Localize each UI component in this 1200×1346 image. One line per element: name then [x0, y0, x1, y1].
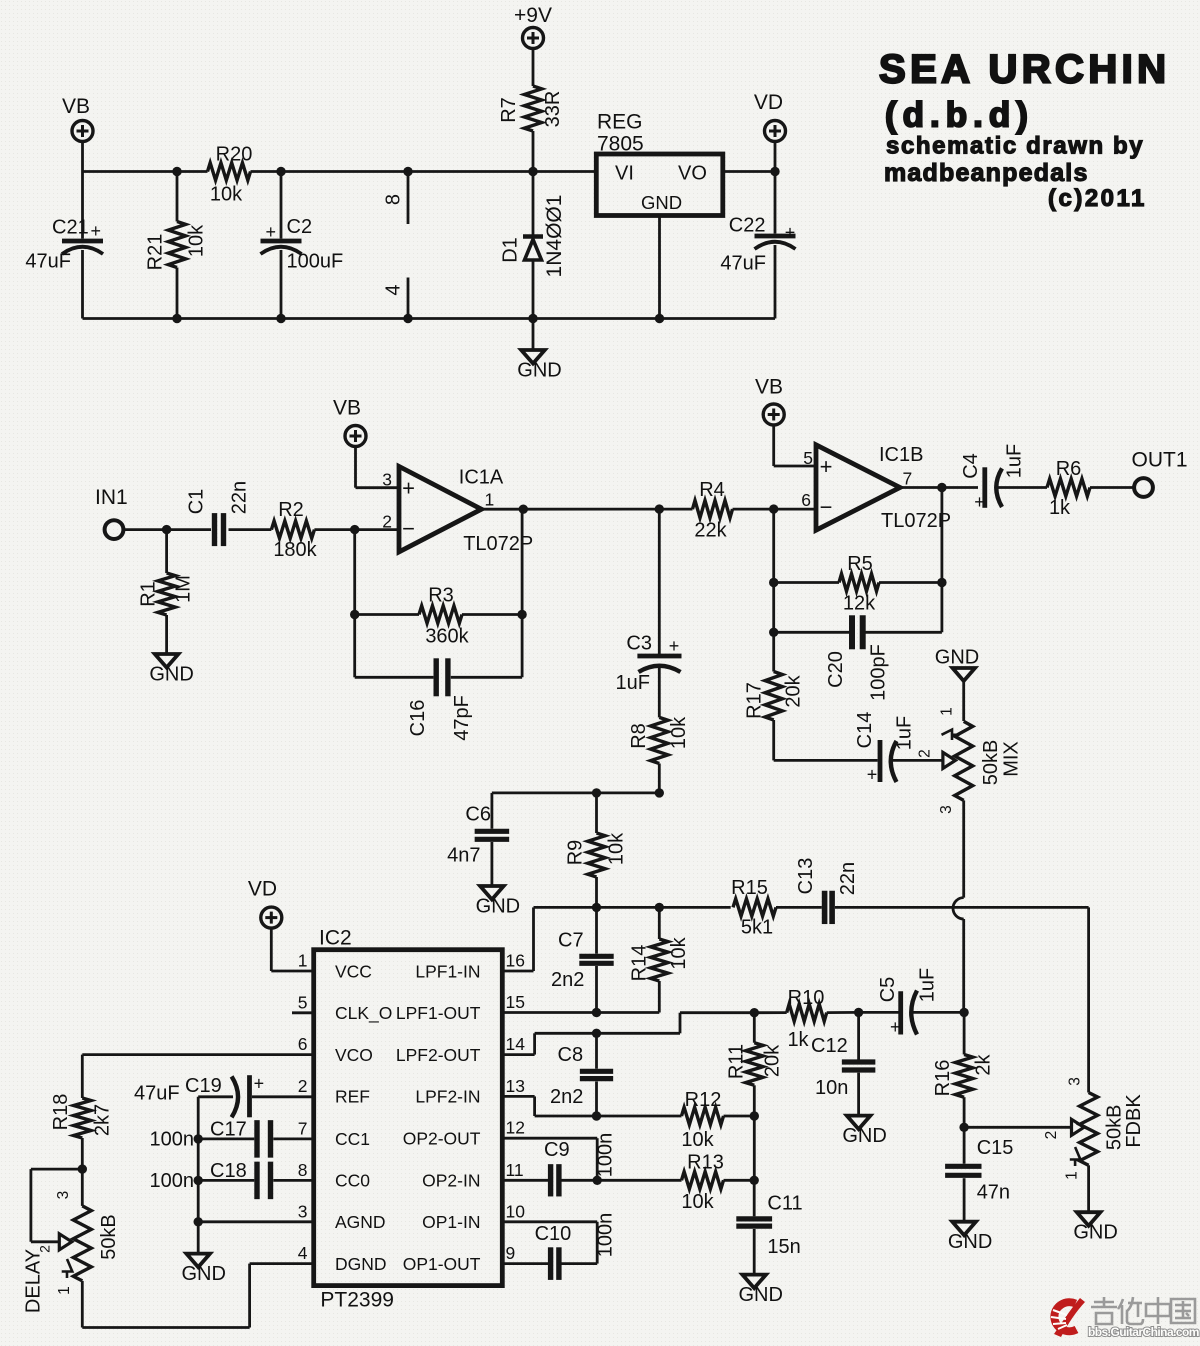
svg-text:50kB: 50kB: [980, 740, 1002, 786]
regulator REG 7805: [596, 111, 723, 216]
svg-text:22n: 22n: [229, 481, 251, 514]
capacitor C12: [811, 1012, 875, 1115]
svg-text:+: +: [785, 223, 796, 243]
svg-text:5: 5: [298, 992, 308, 1012]
svg-text:DELAY: DELAY: [23, 1249, 45, 1313]
junction R5 right: [937, 578, 946, 587]
capacitor C8: [550, 1033, 613, 1116]
svg-text:(d.b.d): (d.b.d): [885, 96, 1034, 135]
svg-text:OUT1: OUT1: [1132, 449, 1188, 472]
svg-text:2: 2: [382, 512, 392, 532]
svg-text:22k: 22k: [694, 520, 727, 542]
svg-text:AGND: AGND: [335, 1212, 386, 1232]
svg-text:C16: C16: [407, 700, 429, 737]
svg-text:R16: R16: [932, 1060, 954, 1097]
svg-text:VB: VB: [755, 376, 783, 399]
resistor R13: [681, 1152, 759, 1214]
svg-text:OP2-OUT: OP2-OUT: [403, 1129, 481, 1149]
svg-text:REG: REG: [597, 111, 643, 134]
capacitor C7: [551, 907, 614, 1012]
svg-text:GND: GND: [181, 1263, 225, 1285]
capacitor C19: [134, 1074, 314, 1118]
resistor R9: [565, 793, 628, 908]
svg-text:9: 9: [506, 1243, 516, 1263]
svg-text:50kB: 50kB: [98, 1214, 120, 1260]
svg-text:C2: C2: [287, 216, 313, 238]
resistor R18: [50, 1055, 114, 1170]
wire hop over feedback net: [953, 898, 964, 919]
wire R17 to C14: [774, 720, 878, 760]
wire DELAY wiper loop: [31, 1169, 82, 1250]
svg-text:1uF: 1uF: [917, 968, 939, 1002]
svg-text:PT2399: PT2399: [320, 1289, 394, 1312]
junction R11 top: [750, 1008, 759, 1017]
svg-text:10k: 10k: [606, 832, 628, 865]
svg-text:C22: C22: [729, 215, 766, 237]
svg-text:VCO: VCO: [335, 1045, 373, 1065]
resistor R3: [355, 585, 522, 648]
svg-text:VD: VD: [248, 878, 277, 901]
svg-text:100n: 100n: [595, 1213, 617, 1258]
svg-text:47uF: 47uF: [134, 1083, 180, 1105]
capacitor C18: [150, 1160, 314, 1199]
wire VCO row: [82, 1053, 313, 1056]
svg-text:20k: 20k: [783, 674, 805, 707]
wire top supply rail: [83, 170, 597, 173]
wire VD to pin1: [271, 928, 313, 971]
svg-text:20k: 20k: [762, 1044, 784, 1077]
svg-text:REF: REF: [335, 1087, 370, 1107]
svg-text:VO: VO: [678, 163, 707, 185]
svg-text:SEA URCHIN: SEA URCHIN: [879, 48, 1170, 92]
svg-text:8: 8: [298, 1160, 308, 1180]
wire IC1A out down: [521, 509, 524, 677]
svg-text:33R: 33R: [542, 91, 564, 128]
capacitor C9: [502, 1133, 681, 1197]
svg-text:3: 3: [298, 1201, 308, 1221]
wire IC1B out: [900, 483, 978, 492]
svg-text:7: 7: [298, 1118, 308, 1138]
svg-text:4n7: 4n7: [447, 845, 480, 867]
resistor R8: [628, 668, 690, 793]
wire pin16 riser: [502, 907, 533, 971]
svg-text:10k: 10k: [668, 716, 690, 749]
svg-text:GND: GND: [517, 360, 561, 382]
svg-text:VCC: VCC: [335, 961, 372, 981]
wire C17 C18 rail: [194, 1097, 203, 1254]
svg-text:2k7: 2k7: [91, 1104, 113, 1136]
capacitor C15: [945, 1127, 1013, 1221]
resistor R14: [629, 907, 691, 1012]
wire inv2 feedback column: [769, 509, 778, 671]
resistor R11: [726, 1013, 784, 1116]
svg-text:2n2: 2n2: [551, 969, 584, 991]
svg-text:10: 10: [506, 1201, 526, 1221]
resistor R5: [774, 553, 942, 615]
svg-text:+: +: [820, 454, 833, 479]
wire IC1A out: [481, 505, 692, 514]
potentiometer MIX 50kB: [916, 707, 1022, 814]
svg-text:+: +: [867, 765, 878, 785]
wire pin14 path: [502, 1013, 754, 1055]
ground AGND: [181, 1254, 225, 1286]
svg-text:10n: 10n: [815, 1077, 848, 1099]
IC2 left pin numbers: [298, 951, 308, 1264]
svg-text:madbeanpedals: madbeanpedals: [884, 159, 1089, 187]
svg-text:3: 3: [382, 470, 392, 490]
resistor R10: [754, 987, 858, 1051]
svg-text:CC1: CC1: [335, 1129, 370, 1149]
svg-text:1: 1: [1064, 1171, 1081, 1180]
svg-text:C19: C19: [185, 1075, 222, 1097]
wire R4 to opamp2: [733, 504, 817, 513]
svg-text:R15: R15: [731, 877, 768, 899]
junction R18 bottom: [78, 1164, 87, 1173]
svg-text:R21: R21: [145, 234, 167, 271]
svg-text:R10: R10: [788, 987, 825, 1009]
svg-text:10k: 10k: [681, 1129, 714, 1151]
svg-text:1k: 1k: [787, 1029, 809, 1051]
svg-text:100pF: 100pF: [868, 644, 890, 701]
svg-text:2: 2: [916, 749, 933, 758]
svg-text:R13: R13: [687, 1152, 724, 1174]
node VD power terminal: [754, 91, 786, 142]
svg-text:+: +: [669, 636, 680, 656]
svg-text:+9V: +9V: [514, 4, 552, 27]
junction top rail R21: [172, 167, 181, 176]
svg-text:GND: GND: [476, 896, 520, 918]
svg-text:VB: VB: [333, 397, 361, 420]
capacitor C20: [774, 615, 942, 701]
node VB opamp1: [333, 397, 366, 447]
wire VB to rail: [81, 142, 84, 172]
svg-text:GND: GND: [149, 664, 193, 686]
svg-text:13: 13: [506, 1076, 525, 1096]
wire LPF1 net row: [534, 903, 731, 912]
svg-text:1: 1: [298, 951, 308, 971]
svg-text:4: 4: [298, 1243, 308, 1263]
IC2 right pin numbers: [506, 951, 526, 1264]
svg-text:1N4ØØ1: 1N4ØØ1: [543, 195, 566, 278]
watermark logo GuitarChina: [1051, 1297, 1199, 1339]
capacitor C1: [186, 481, 251, 546]
ground C15: [948, 1222, 992, 1254]
svg-text:R17: R17: [744, 682, 766, 719]
svg-text:1M: 1M: [173, 575, 195, 603]
resistor R1: [138, 530, 195, 654]
resistor R6: [1047, 458, 1090, 519]
svg-text:2n2: 2n2: [550, 1086, 583, 1108]
ground FDBK: [1073, 1165, 1117, 1243]
svg-text:DGND: DGND: [335, 1254, 387, 1274]
svg-text:(c)2011: (c)2011: [1048, 185, 1147, 212]
op-amp IC1B: [801, 444, 951, 532]
capacitor C13: [776, 858, 859, 924]
svg-text:FDBK: FDBK: [1123, 1094, 1145, 1148]
svg-text:+: +: [974, 492, 985, 512]
svg-text:2: 2: [298, 1076, 308, 1096]
svg-text:10k: 10k: [186, 224, 208, 257]
wire IN1 to C1: [124, 528, 212, 531]
svg-text:100n: 100n: [595, 1133, 617, 1178]
svg-text:C12: C12: [811, 1035, 848, 1057]
svg-text:+: +: [402, 476, 415, 501]
node OUT1: [1090, 449, 1188, 497]
svg-text:C3: C3: [626, 633, 652, 655]
svg-text:R20: R20: [216, 144, 253, 166]
svg-text:3: 3: [1067, 1077, 1084, 1086]
svg-text:1uF: 1uF: [1004, 444, 1026, 478]
svg-text:8: 8: [383, 194, 405, 205]
wire DELAY to DGND: [82, 1264, 313, 1328]
svg-text:1: 1: [939, 707, 956, 716]
svg-text:3: 3: [55, 1191, 72, 1200]
svg-text:schematic drawn by: schematic drawn by: [886, 133, 1144, 160]
svg-text:IC1B: IC1B: [879, 444, 923, 466]
svg-text:VD: VD: [754, 91, 783, 114]
svg-text:4: 4: [383, 284, 405, 295]
svg-text:2: 2: [1043, 1131, 1060, 1140]
svg-text:R9: R9: [565, 840, 587, 866]
svg-text:1k: 1k: [1049, 497, 1071, 519]
capacitor C21: [25, 172, 103, 319]
svg-text:3: 3: [938, 805, 955, 814]
pin 5 stub: [292, 1011, 314, 1014]
wire VB to noninv: [356, 447, 400, 488]
potentiometer FDBK 50kB: [1064, 1077, 1145, 1180]
wire VB2 to noninv: [774, 425, 816, 466]
svg-text:R5: R5: [847, 553, 873, 575]
wire MIX3 down to hop: [962, 800, 965, 897]
svg-text:VB: VB: [62, 95, 90, 118]
svg-text:−: −: [820, 495, 833, 520]
pin 4 stub: [383, 278, 408, 319]
svg-text:14: 14: [506, 1034, 526, 1054]
IC2 pin names left: [335, 961, 392, 1274]
svg-text:MIX: MIX: [1001, 741, 1023, 777]
wire C14 to MIX wiper: [892, 759, 943, 762]
svg-text:15n: 15n: [767, 1236, 800, 1258]
resistor R17: [744, 672, 805, 721]
wire inv feedback column: [350, 530, 359, 678]
capacitor C6: [447, 793, 509, 886]
diode D1: [500, 172, 566, 319]
svg-text:GND: GND: [935, 647, 979, 669]
svg-text:6: 6: [298, 1034, 308, 1054]
svg-text:1uF: 1uF: [894, 716, 916, 750]
svg-text:360k: 360k: [425, 626, 469, 648]
svg-text:C5: C5: [877, 977, 899, 1003]
node VB opamp2: [755, 376, 784, 426]
pin 8 stub: [383, 172, 408, 225]
svg-text:5k1: 5k1: [741, 917, 773, 939]
svg-text:12k: 12k: [843, 593, 876, 615]
svg-text:C8: C8: [558, 1044, 584, 1066]
wire R12 to R13 column: [753, 1116, 756, 1180]
svg-text:CC0: CC0: [335, 1171, 370, 1191]
svg-text:GND: GND: [1073, 1222, 1117, 1244]
svg-text:OP1-OUT: OP1-OUT: [403, 1254, 481, 1274]
svg-text:GND: GND: [948, 1231, 992, 1253]
svg-text:+: +: [265, 222, 276, 242]
wire pin12 path: [502, 1138, 597, 1180]
svg-text:R4: R4: [699, 479, 725, 501]
wire pin13 path: [502, 1096, 681, 1120]
svg-text:6: 6: [801, 490, 811, 510]
svg-text:R18: R18: [50, 1094, 72, 1131]
resistor R16: [932, 1012, 995, 1127]
node IN1: [95, 486, 128, 539]
svg-text:47n: 47n: [977, 1182, 1010, 1204]
node VD terminal 2: [248, 878, 282, 929]
resistor R4: [693, 479, 733, 542]
potentiometer DELAY 50kB: [23, 1169, 121, 1313]
svg-text:15: 15: [506, 992, 525, 1012]
svg-text:LPF1-OUT: LPF1-OUT: [396, 1003, 481, 1023]
capacitor C17: [150, 1119, 314, 1158]
svg-text:GND: GND: [641, 192, 682, 213]
ground MIX top: [935, 647, 979, 682]
wire bottom supply rail: [83, 317, 776, 320]
svg-text:−: −: [402, 516, 415, 541]
capacitor C16: [355, 658, 522, 740]
svg-text:11: 11: [506, 1160, 524, 1180]
svg-text:100n: 100n: [150, 1129, 195, 1151]
svg-text:R3: R3: [428, 585, 454, 607]
svg-text:IC2: IC2: [319, 927, 352, 950]
svg-text:2k: 2k: [973, 1053, 995, 1075]
svg-text:R11: R11: [726, 1044, 748, 1079]
wire GND to MIX: [962, 681, 965, 721]
svg-text:47uF: 47uF: [720, 253, 766, 275]
svg-text:C14: C14: [854, 712, 876, 749]
svg-text:C17: C17: [210, 1119, 247, 1141]
svg-text:5: 5: [803, 448, 813, 468]
svg-text:C1: C1: [186, 489, 208, 515]
ground C11: [738, 1275, 782, 1307]
capacitor C10: [502, 1213, 616, 1280]
svg-text:+: +: [890, 1017, 901, 1037]
capacitor C14: [854, 712, 916, 785]
capacitor C22: [720, 172, 795, 319]
title SEA URCHIN: [879, 48, 1170, 213]
svg-text:47pF: 47pF: [451, 695, 473, 741]
ground power: [517, 319, 561, 382]
op-amp IC1A: [382, 466, 533, 555]
capacitor C2: [261, 172, 344, 319]
wire regulator GND: [655, 216, 664, 323]
svg-text:VI: VI: [615, 163, 634, 185]
svg-text:10k: 10k: [668, 936, 690, 969]
svg-text:+: +: [90, 221, 101, 241]
resistor R7: [498, 49, 564, 172]
svg-text:C4: C4: [960, 453, 982, 479]
wire hop to C5 junction: [962, 919, 965, 1012]
ground C12: [842, 1116, 886, 1148]
svg-text:GND: GND: [842, 1125, 886, 1147]
wire VO to VD: [723, 170, 775, 173]
junction top rail C2: [276, 167, 285, 176]
svg-text:R14: R14: [629, 945, 651, 982]
svg-text:1: 1: [56, 1286, 73, 1295]
svg-text:R6: R6: [1056, 458, 1082, 480]
resistor R2: [271, 499, 317, 561]
ground R1: [149, 654, 193, 686]
wire VD down: [770, 142, 779, 177]
svg-text:LPF2-IN: LPF2-IN: [415, 1087, 480, 1107]
resistor R15: [731, 877, 776, 938]
junction R3 right: [517, 610, 526, 619]
svg-text:OP2-IN: OP2-IN: [422, 1171, 480, 1191]
svg-text:OP1-IN: OP1-IN: [422, 1212, 480, 1232]
svg-text:100n: 100n: [150, 1170, 195, 1192]
svg-text:+: +: [254, 1074, 265, 1094]
svg-text:bbs.GuitarChina.com: bbs.GuitarChina.com: [1088, 1325, 1199, 1339]
svg-text:C11: C11: [767, 1193, 802, 1215]
node VB power terminal: [62, 95, 93, 142]
wire AGND row: [198, 1220, 314, 1223]
svg-text:10k: 10k: [210, 184, 243, 206]
svg-text:LPF1-IN: LPF1-IN: [415, 961, 480, 981]
svg-text:10k: 10k: [681, 1191, 714, 1213]
wire IC1B out down: [941, 488, 944, 633]
wire wiper FDBK: [964, 1119, 1084, 1139]
wire pin10 path: [502, 1222, 597, 1264]
svg-text:GND: GND: [738, 1284, 782, 1306]
ground C6: [476, 886, 520, 918]
junctions bottom rail: [172, 314, 537, 323]
node +9V terminal: [514, 4, 552, 49]
junction C12 top: [854, 1008, 863, 1017]
svg-text:CLK_O: CLK_O: [335, 1003, 392, 1024]
svg-text:C10: C10: [535, 1223, 572, 1245]
wire pin15 row: [502, 1008, 659, 1017]
junction top rail pin8: [403, 167, 412, 176]
svg-text:16: 16: [506, 951, 525, 971]
svg-text:D1: D1: [500, 237, 522, 263]
resistor R12: [681, 1089, 759, 1151]
wire C13 to FDBK: [835, 907, 1089, 1092]
svg-text:1: 1: [485, 490, 495, 510]
svg-text:22n: 22n: [837, 862, 859, 895]
svg-text:C20: C20: [825, 651, 847, 688]
resistor R21: [145, 172, 208, 319]
svg-text:7805: 7805: [597, 133, 644, 156]
junction R16 bottom: [959, 1123, 968, 1132]
IC2 pin names right: [396, 961, 481, 1274]
wire C1 to R2: [229, 528, 272, 531]
IC2 PT2399 box: [314, 927, 503, 1312]
svg-text:1uF: 1uF: [616, 672, 650, 694]
svg-text:47uF: 47uF: [25, 251, 71, 273]
svg-text:12: 12: [506, 1118, 525, 1138]
wire C4 to R6: [998, 486, 1048, 489]
svg-text:LPF2-OUT: LPF2-OUT: [396, 1045, 481, 1065]
capacitor C5: [859, 968, 965, 1037]
wire mid supply rail: [492, 788, 664, 797]
junction top rail R7: [528, 167, 537, 176]
resistor R20: [208, 144, 253, 206]
svg-text:R8: R8: [628, 723, 650, 749]
svg-text:IC1A: IC1A: [459, 467, 504, 489]
svg-text:IN1: IN1: [95, 486, 128, 509]
svg-text:100uF: 100uF: [287, 251, 344, 273]
capacitor C11: [736, 1180, 802, 1274]
svg-text:C18: C18: [210, 1160, 247, 1182]
svg-text:7: 7: [903, 469, 913, 489]
svg-text:R7: R7: [498, 97, 520, 123]
capacitor C3: [616, 504, 682, 694]
